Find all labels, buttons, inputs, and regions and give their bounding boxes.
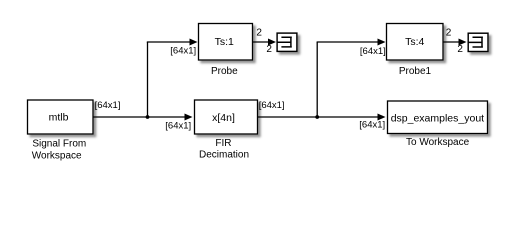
block terminator1 (display icon) [277, 33, 297, 51]
block To Workspace (dsp_examples_yout) [388, 101, 488, 148]
svg-text:2: 2 [266, 44, 272, 55]
wire Probe -> terminator1 [253, 39, 276, 46]
wire mtlb -> FIR Decimation [94, 114, 193, 121]
wire Probe1 -> terminator2 [443, 39, 467, 46]
node junction 2 [315, 115, 319, 119]
svg-text:[64x1]: [64x1] [95, 100, 121, 111]
block Probe1 (Ts:4) [387, 24, 444, 78]
svg-text:x[4n]: x[4n] [212, 112, 235, 124]
svg-text:Ts:1: Ts:1 [215, 36, 234, 48]
node junction 1 [146, 115, 150, 119]
svg-text:[64x1]: [64x1] [165, 120, 191, 131]
block Probe (Ts:1) [199, 24, 253, 77]
svg-text:[64x1]: [64x1] [359, 119, 385, 130]
svg-text:2: 2 [446, 28, 452, 39]
svg-text:2: 2 [457, 44, 463, 55]
svg-text:Probe1: Probe1 [399, 66, 432, 77]
svg-text:mtlb: mtlb [49, 111, 69, 123]
svg-text:Workspace: Workspace [32, 151, 82, 162]
svg-text:[64x1]: [64x1] [170, 46, 196, 57]
wire junction2 up [316, 42, 318, 117]
block Signal From Workspace (mtlb) [28, 100, 94, 162]
svg-text:Signal From: Signal From [32, 139, 86, 150]
wire junction1 up [147, 42, 149, 117]
svg-text:Decimation: Decimation [199, 150, 249, 161]
svg-text:Ts:4: Ts:4 [405, 36, 424, 48]
svg-text:FIR: FIR [215, 138, 231, 149]
svg-text:dsp_examples_yout: dsp_examples_yout [391, 112, 484, 124]
svg-text:Probe: Probe [211, 66, 238, 77]
block FIR Decimation (x[4n]) [195, 100, 258, 161]
svg-text:[64x1]: [64x1] [259, 100, 285, 111]
wire FIR -> To Workspace [258, 114, 386, 121]
svg-text:To Workspace: To Workspace [406, 137, 470, 148]
block terminator2 (display icon) [468, 33, 488, 51]
svg-text:2: 2 [256, 28, 262, 39]
wire junction1 -> Probe [147, 39, 198, 46]
svg-text:[64x1]: [64x1] [360, 46, 386, 57]
wire junction2 -> Probe1 [317, 39, 386, 46]
